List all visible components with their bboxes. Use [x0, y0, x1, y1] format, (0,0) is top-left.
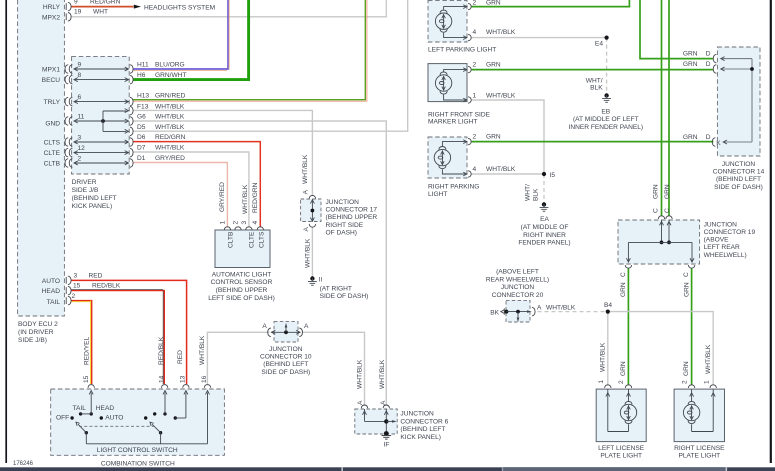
svg-text:CONNECTOR 19: CONNECTOR 19 — [704, 229, 756, 236]
svg-text:1: 1 — [598, 380, 605, 384]
svg-text:3: 3 — [78, 134, 82, 141]
svg-text:(AT MIDDLE OF LEFT: (AT MIDDLE OF LEFT — [573, 116, 639, 123]
svg-text:RED/BLK: RED/BLK — [92, 283, 121, 290]
wire HEAD pin 15 RED/BLK to switch pin 14 — [71, 291, 164, 384]
svg-text:RED/GRN: RED/GRN — [252, 182, 259, 213]
svg-text:19: 19 — [74, 9, 82, 16]
svg-text:GRN: GRN — [486, 62, 501, 69]
svg-text:D7: D7 — [137, 145, 146, 152]
svg-text:MPX2: MPX2 — [42, 14, 60, 21]
svg-text:RED/GRN: RED/GRN — [90, 0, 121, 5]
svg-text:WHT/BLK: WHT/BLK — [486, 93, 516, 100]
svg-text:1: 1 — [220, 221, 227, 225]
wire AUTO pin 3 RED to switch pin 13 — [71, 280, 187, 384]
svg-text:C: C — [620, 272, 627, 277]
svg-text:C: C — [664, 208, 671, 213]
svg-text:4: 4 — [473, 166, 477, 173]
left license plate light bulb — [605, 385, 611, 388]
svg-text:MPX1: MPX1 — [42, 67, 60, 74]
wire marker light pin 2 GRN to junction connector 14 pin D — [471, 69, 714, 71]
wire right parking light pin 2 GRN to junction connector 14 pin K — [471, 141, 714, 143]
wire left parking light pin 2 GRN — [471, 0, 629, 7]
wire D6 RED/GRN to sensor pin 4 CLTS — [133, 142, 260, 227]
svg-text:GRY/RED: GRY/RED — [155, 155, 185, 162]
svg-text:SIDE OF DASH): SIDE OF DASH) — [714, 184, 763, 191]
svg-text:1: 1 — [473, 93, 477, 100]
svg-text:WHT/: WHT/ — [524, 184, 531, 201]
svg-text:(BEHIND UPPER: (BEHIND UPPER — [326, 214, 378, 221]
svg-text:RIGHT FRONT SIDE: RIGHT FRONT SIDE — [428, 111, 491, 118]
automatic light control sensor (behind upper left side of dash) — [215, 230, 270, 268]
right parking light bulb — [442, 142, 467, 146]
svg-text:LIGHT CONTROL SWITCH: LIGHT CONTROL SWITCH — [97, 447, 178, 454]
svg-text:GRN: GRN — [684, 282, 691, 297]
svg-text:RED: RED — [89, 272, 103, 279]
svg-text:F13: F13 — [137, 103, 149, 110]
body ECU 2 (in driver side J/B) — [18, 0, 65, 316]
svg-text:WHT/BLK: WHT/BLK — [356, 359, 363, 389]
left license plate light — [596, 389, 646, 442]
svg-text:RED: RED — [177, 350, 184, 364]
svg-text:WHT/BLK: WHT/BLK — [546, 305, 576, 312]
svg-text:AUTO: AUTO — [42, 278, 60, 285]
svg-text:2: 2 — [473, 0, 477, 7]
left parking light bulb — [444, 7, 467, 10]
svg-text:WHT/BLK: WHT/BLK — [486, 29, 516, 36]
svg-text:CLTE: CLTE — [248, 231, 255, 248]
junction connector 20 (above left rear wheelwell) — [506, 300, 530, 322]
svg-text:HEAD: HEAD — [96, 405, 115, 412]
svg-text:K: K — [716, 140, 721, 147]
svg-text:11: 11 — [78, 113, 85, 120]
svg-text:G6: G6 — [137, 114, 146, 121]
svg-text:4: 4 — [252, 221, 259, 225]
svg-text:6: 6 — [78, 94, 82, 101]
svg-text:TRLY: TRLY — [44, 99, 61, 106]
svg-text:A: A — [537, 305, 542, 312]
svg-text:16: 16 — [201, 375, 208, 383]
svg-text:REAR WHEELWELL): REAR WHEELWELL) — [486, 276, 549, 283]
svg-text:BECU: BECU — [42, 77, 61, 84]
svg-text:CLTB: CLTB — [44, 161, 61, 168]
wire TAIL pin 2 RED/YEL to switch pin 15 — [71, 301, 92, 384]
svg-text:4: 4 — [473, 29, 477, 36]
svg-text:BK: BK — [490, 309, 499, 316]
right front side marker light — [428, 64, 467, 102]
svg-text:LEFT PARKING LIGHT: LEFT PARKING LIGHT — [428, 46, 496, 53]
svg-text:AUTO: AUTO — [105, 414, 123, 421]
ground II — [310, 276, 314, 280]
svg-text:TAIL: TAIL — [73, 405, 87, 412]
svg-text:MARKER LIGHT: MARKER LIGHT — [428, 119, 477, 126]
junction connector 6 (behind left kick panel) — [355, 409, 397, 434]
svg-text:LIGHT: LIGHT — [428, 191, 447, 198]
svg-text:2: 2 — [473, 134, 477, 141]
svg-text:(AT RIGHT: (AT RIGHT — [320, 285, 352, 292]
svg-text:WHT/BLK: WHT/BLK — [600, 342, 607, 372]
svg-text:2: 2 — [618, 380, 625, 384]
svg-text:COMBINATION SWITCH: COMBINATION SWITCH — [101, 460, 175, 467]
svg-text:D: D — [706, 51, 711, 58]
svg-text:GRN/WHT: GRN/WHT — [155, 72, 187, 79]
svg-text:GRY/RED: GRY/RED — [219, 182, 226, 212]
svg-text:TAIL: TAIL — [47, 299, 61, 306]
svg-text:15: 15 — [73, 283, 81, 290]
right license plate light — [674, 389, 724, 442]
wire D5 WHT/BLK — [133, 0, 408, 131]
J/B internal bus wires — [75, 68, 128, 70]
svg-text:A: A — [380, 400, 387, 405]
svg-text:PLATE LIGHT: PLATE LIGHT — [678, 453, 720, 460]
svg-text:(BEHIND LEFT: (BEHIND LEFT — [716, 176, 761, 183]
svg-text:LEFT SIDE OF DASH): LEFT SIDE OF DASH) — [208, 295, 275, 302]
node E4 — [605, 36, 609, 40]
svg-text:SIDE J/B: SIDE J/B — [72, 187, 99, 194]
sensor pin connectors 1-4 — [224, 227, 230, 230]
svg-text:GRN: GRN — [620, 282, 627, 297]
svg-text:B4: B4 — [604, 302, 612, 309]
svg-text:GRN: GRN — [683, 61, 698, 68]
svg-text:GRN: GRN — [683, 134, 698, 141]
svg-text:WHT/BLK: WHT/BLK — [302, 154, 309, 184]
svg-text:WHT/BLK: WHT/BLK — [199, 335, 206, 365]
wire HRLY pin 9 RED/GRN to headlights system — [71, 6, 134, 8]
svg-text:BODY ECU 2: BODY ECU 2 — [18, 321, 58, 328]
svg-text:GRN: GRN — [683, 361, 690, 376]
svg-text:CONNECTOR 6: CONNECTOR 6 — [400, 418, 448, 425]
svg-text:JUNCTION: JUNCTION — [704, 221, 738, 228]
wire F13 WHT/BLK to junction connector 17 — [133, 110, 312, 196]
svg-text:(ABOVE LEFT: (ABOVE LEFT — [496, 269, 539, 276]
svg-text:CLTS: CLTS — [259, 231, 266, 248]
svg-text:II: II — [319, 277, 323, 284]
wire marker light pin 1 WHT/BLK to node I5 — [471, 100, 544, 174]
svg-text:JUNCTION: JUNCTION — [269, 346, 303, 353]
svg-text:GRN/RED: GRN/RED — [155, 93, 186, 100]
svg-text:RED/BLK: RED/BLK — [158, 336, 165, 365]
svg-text:(AT MIDDLE OF: (AT MIDDLE OF — [521, 224, 569, 231]
junction connector 6 internal and ground IF — [361, 405, 367, 408]
svg-text:GRN: GRN — [653, 184, 660, 199]
svg-text:GRN: GRN — [486, 0, 501, 7]
wire GRN pair to junction connector 19 pins C — [661, 0, 663, 216]
svg-text:C: C — [683, 272, 690, 277]
svg-text:SIDE OF DASH): SIDE OF DASH) — [261, 369, 310, 376]
right front side marker light bulb — [444, 70, 467, 72]
svg-text:WHT/BLK: WHT/BLK — [155, 114, 185, 121]
wire GRN to junction connector 14 pin D upper — [640, 0, 714, 59]
svg-text:BLU/ORG: BLU/ORG — [155, 61, 185, 68]
svg-text:RIGHT LICENSE: RIGHT LICENSE — [674, 445, 725, 452]
junction connector 20 internal — [504, 310, 508, 314]
svg-text:2: 2 — [78, 155, 82, 162]
right license plate light bulb — [688, 385, 694, 388]
wire node I5 to ground EA (dashed) — [543, 174, 545, 203]
svg-text:IF: IF — [384, 442, 390, 449]
junction connector 19 (above left rear wheelwell) — [618, 220, 700, 264]
svg-text:JUNCTION: JUNCTION — [326, 199, 360, 206]
ground EB — [604, 93, 608, 97]
svg-text:9: 9 — [78, 61, 82, 68]
svg-text:WHT/BLK: WHT/BLK — [242, 184, 249, 214]
svg-text:WHT/BLK: WHT/BLK — [705, 344, 712, 374]
svg-text:FENDER PANEL): FENDER PANEL) — [518, 239, 570, 246]
wire H11 BLU/ORG from MPX1 — [133, 0, 228, 69]
wire H13 GRN/RED from TRLY — [133, 0, 365, 100]
combination switch — [51, 389, 225, 455]
svg-text:D1: D1 — [137, 155, 146, 162]
svg-text:WHT/BLK: WHT/BLK — [304, 238, 311, 268]
wire switch pin 16 WHT/BLK to junction connector 10 — [207, 332, 269, 384]
svg-text:E4: E4 — [595, 40, 603, 47]
svg-text:WHT/BLK: WHT/BLK — [486, 166, 516, 173]
svg-text:OFF: OFF — [56, 414, 69, 421]
svg-text:176246: 176246 — [13, 461, 34, 467]
wire WHT/BLK junction connector 10 to junction connector 6 — [302, 332, 365, 405]
svg-text:CONNECTOR 20: CONNECTOR 20 — [492, 292, 544, 299]
wire D7 WHT/BLK to sensor pin 3 CLTE — [133, 152, 249, 227]
right parking light — [428, 137, 467, 178]
wire WHT/BLK node B4 to left license plate light pin 1 — [607, 312, 609, 385]
node B4 — [606, 310, 610, 314]
svg-text:CONNECTOR 14: CONNECTOR 14 — [713, 169, 765, 176]
svg-text:H13: H13 — [137, 93, 149, 100]
svg-text:C: C — [653, 208, 660, 213]
svg-text:8: 8 — [78, 72, 82, 79]
svg-text:CLTS: CLTS — [44, 140, 61, 147]
body ECU pin connectors — [65, 3, 67, 10]
svg-text:JUNCTION: JUNCTION — [722, 161, 756, 168]
svg-text:HEADLIGHTS SYSTEM: HEADLIGHTS SYSTEM — [144, 5, 215, 12]
svg-text:9: 9 — [74, 0, 78, 5]
wire D1 GRY/RED to sensor pin 1 CLTB — [133, 163, 227, 228]
svg-text:RED/YEL: RED/YEL — [84, 336, 91, 365]
svg-text:13: 13 — [179, 375, 186, 383]
svg-text:GRN: GRN — [620, 361, 627, 376]
svg-text:WHT: WHT — [93, 9, 108, 16]
junction connector 10 (behind left side of dash) — [274, 322, 298, 342]
svg-text:15: 15 — [83, 375, 90, 383]
junction connector 17 (behind upper right side of dash) — [301, 199, 321, 222]
svg-text:GRN: GRN — [683, 51, 698, 58]
svg-text:(ABOVE: (ABOVE — [704, 237, 730, 244]
wire MPX2 pin 19 WHT — [71, 0, 386, 17]
svg-text:A: A — [303, 189, 310, 194]
svg-text:(BEHIND LEFT: (BEHIND LEFT — [72, 195, 117, 202]
svg-text:3: 3 — [241, 221, 248, 225]
svg-text:CLTE: CLTE — [44, 150, 61, 157]
ground EA — [542, 202, 546, 206]
junction connector 17 internal — [309, 195, 315, 198]
svg-text:AUTOMATIC LIGHT: AUTOMATIC LIGHT — [212, 271, 271, 278]
svg-text:LEFT LICENSE: LEFT LICENSE — [598, 445, 645, 452]
svg-text:(BEHIND LEFT: (BEHIND LEFT — [263, 361, 308, 368]
svg-text:A: A — [262, 323, 267, 330]
page frame and bottom bar — [5, 0, 7, 463]
svg-text:WHT/: WHT/ — [586, 77, 603, 84]
svg-text:RED/GRN: RED/GRN — [155, 134, 186, 141]
svg-text:2: 2 — [473, 62, 477, 69]
svg-text:INNER FENDER PANEL): INNER FENDER PANEL) — [568, 124, 643, 131]
svg-text:12: 12 — [78, 145, 86, 152]
svg-text:WHT/BLK: WHT/BLK — [379, 359, 386, 389]
left parking light — [428, 0, 467, 42]
svg-text:I5: I5 — [550, 172, 556, 179]
svg-text:2: 2 — [233, 221, 240, 225]
svg-text:A: A — [303, 227, 310, 232]
wire H6 GRN/WHT from BECU — [133, 0, 249, 80]
driver side J/B (behind left kick panel) — [72, 57, 130, 174]
svg-text:RIGHT SIDE: RIGHT SIDE — [326, 222, 364, 229]
svg-text:BLK: BLK — [532, 188, 539, 201]
svg-text:CONNECTOR 10: CONNECTOR 10 — [260, 354, 312, 361]
svg-text:SIDE OF DASH): SIDE OF DASH) — [320, 293, 369, 300]
svg-text:H6: H6 — [137, 72, 146, 79]
svg-text:A: A — [304, 323, 309, 330]
svg-text:D5: D5 — [137, 124, 146, 131]
svg-text:WHT/BLK: WHT/BLK — [155, 145, 185, 152]
light control switch contacts — [88, 385, 94, 388]
svg-text:HRLY: HRLY — [43, 4, 61, 11]
svg-text:2: 2 — [72, 293, 76, 300]
svg-text:KICK PANEL): KICK PANEL) — [400, 434, 441, 441]
svg-text:D: D — [706, 134, 711, 141]
svg-text:GRN: GRN — [664, 184, 671, 199]
svg-text:CONNECTOR 17: CONNECTOR 17 — [326, 207, 378, 214]
junction connector 14 (behind left side of dash) — [717, 47, 760, 156]
node I5 — [542, 172, 546, 176]
svg-text:LEFT REAR: LEFT REAR — [704, 244, 740, 251]
svg-text:WHEELWELL): WHEELWELL) — [704, 252, 747, 259]
svg-text:EA: EA — [540, 216, 549, 223]
svg-text:WHT/BLK: WHT/BLK — [155, 124, 185, 131]
wire node E4 to ground EB (dashed) — [606, 38, 608, 94]
wire junction connector 20 pin A WHT/BLK to node B4 — [538, 311, 607, 313]
svg-text:GRN: GRN — [486, 134, 501, 141]
svg-text:JUNCTION: JUNCTION — [501, 284, 535, 291]
svg-text:JUNCTION: JUNCTION — [400, 410, 434, 417]
svg-text:1: 1 — [703, 380, 710, 384]
junction connector 10 internal — [271, 331, 301, 333]
svg-text:OF DASH): OF DASH) — [326, 229, 358, 236]
svg-text:RIGHT PARKING: RIGHT PARKING — [428, 184, 479, 191]
svg-text:BLK: BLK — [590, 84, 603, 91]
junction connector 14 internal — [722, 58, 752, 60]
svg-text:(BEHIND LEFT: (BEHIND LEFT — [400, 426, 445, 433]
wire G6 WHT/BLK to junction connector 6 — [133, 121, 386, 405]
svg-text:A: A — [357, 400, 364, 405]
wire left parking light pin 4 WHT/BLK to node E4 — [471, 37, 607, 39]
svg-text:WHT/BLK: WHT/BLK — [155, 103, 185, 110]
svg-text:KICK PANEL): KICK PANEL) — [72, 203, 113, 210]
svg-text:PLATE LIGHT: PLATE LIGHT — [600, 453, 642, 460]
svg-text:14: 14 — [159, 375, 166, 383]
svg-text:(BEHIND UPPER: (BEHIND UPPER — [216, 287, 268, 294]
junction connector 19 internal — [658, 216, 664, 219]
svg-text:2: 2 — [681, 380, 688, 384]
wire WHT/BLK junction connector 17 to ground II — [311, 227, 313, 277]
svg-text:HEAD: HEAD — [42, 288, 61, 295]
svg-text:(IN DRIVER: (IN DRIVER — [18, 329, 54, 336]
svg-text:D: D — [706, 61, 711, 68]
svg-text:CLTB: CLTB — [228, 231, 235, 248]
svg-text:GND: GND — [45, 121, 60, 128]
svg-text:3: 3 — [74, 272, 78, 279]
wire right parking light pin 4 WHT/BLK to node I5 — [471, 173, 544, 175]
svg-text:SIDE J/B): SIDE J/B) — [18, 337, 47, 344]
J/B GND distribution wire — [76, 120, 127, 122]
svg-text:EB: EB — [601, 108, 610, 115]
svg-text:CONTROL SENSOR: CONTROL SENSOR — [211, 279, 273, 286]
wire GRN junction connector 19 to license plate lights — [627, 269, 629, 386]
svg-text:RIGHT INNER: RIGHT INNER — [523, 232, 566, 239]
svg-text:D6: D6 — [137, 134, 146, 141]
svg-text:H11: H11 — [137, 61, 149, 68]
svg-text:DRIVER: DRIVER — [72, 179, 97, 186]
